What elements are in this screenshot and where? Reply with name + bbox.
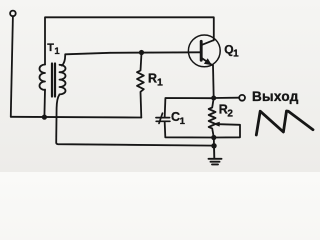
wire emitter node to C1 — [165, 98, 214, 117]
resistor R2 rheostat — [209, 98, 240, 138]
polarity slash — [159, 113, 163, 123]
output terminal — [239, 95, 245, 101]
wire R2 bottom to ground node — [213, 138, 215, 146]
emitter wire down — [212, 65, 215, 98]
wire bottom-left horizontal — [11, 116, 142, 119]
core — [51, 64, 53, 97]
resistor R1 — [137, 53, 163, 118]
svg-text:1: 1 — [180, 116, 186, 127]
capacitor C1 — [156, 110, 186, 127]
svg-text:1: 1 — [54, 46, 60, 57]
secondary winding — [60, 65, 66, 95]
wire left vertical — [11, 17, 13, 117]
wire secondary top lead to base — [62, 52, 200, 65]
base bar — [200, 41, 203, 60]
transformer T1 — [40, 42, 66, 97]
plates — [156, 117, 170, 119]
emitter stroke with arrow — [202, 58, 212, 65]
sawtooth waveform — [256, 111, 313, 135]
wiper arrow — [214, 124, 240, 137]
svg-text:1: 1 — [233, 48, 239, 59]
svg-text:1: 1 — [157, 77, 163, 89]
node emitter junction — [211, 96, 216, 101]
collector stroke — [202, 40, 214, 45]
svg-text:R: R — [148, 71, 157, 85]
wire C1 bottom — [165, 122, 214, 138]
node junction base wire — [139, 50, 144, 55]
transistor Q1 — [188, 35, 239, 98]
node junction ground wire — [211, 143, 216, 148]
svg-text:2: 2 — [227, 108, 233, 119]
wire secondary bottom lead — [56, 95, 214, 146]
node junction R2 bottom — [211, 135, 216, 140]
primary winding — [40, 65, 46, 91]
wire emitter to output terminal — [214, 97, 239, 99]
wire primary bottom lead — [43, 90, 46, 118]
node junction primary-bottom — [42, 115, 47, 120]
ground — [209, 146, 222, 165]
svg-text:Выход: Выход — [252, 89, 299, 104]
input terminal — [10, 11, 16, 17]
wire top rail — [45, 17, 214, 64]
svg-text:T: T — [47, 42, 54, 54]
